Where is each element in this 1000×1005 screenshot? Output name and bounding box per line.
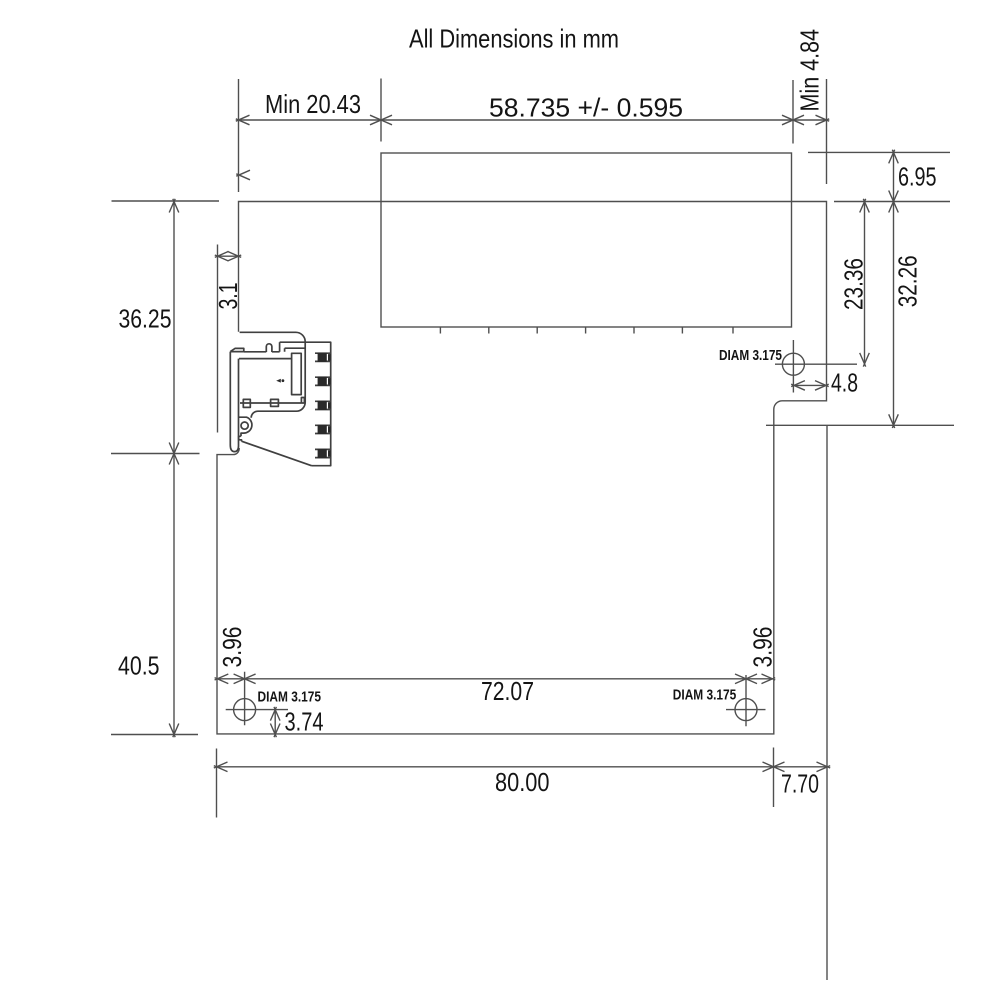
svg-text:3.74: 3.74 xyxy=(285,707,324,737)
connector cap bottom line xyxy=(239,358,292,360)
svg-text:32.26: 32.26 xyxy=(892,255,922,307)
svg-text:3.1: 3.1 xyxy=(213,283,243,310)
svg-text:Min 20.43: Min 20.43 xyxy=(265,89,361,119)
3.1 arrows xyxy=(215,251,241,261)
svg-text:36.25: 36.25 xyxy=(119,304,172,334)
arrow left at 238.5,120 xyxy=(236,115,250,125)
3.1 extension line x=217.5 xyxy=(217,245,219,433)
right reference line y=425.3 xyxy=(766,424,954,426)
title note xyxy=(409,24,619,54)
connector polarity mark xyxy=(276,379,284,383)
dim line x=864.5 (23.36) xyxy=(864,202,866,364)
arrow left at 217.3,678.8 xyxy=(215,674,229,684)
svg-text:DIAM 3.175: DIAM 3.175 xyxy=(673,688,737,704)
text 36.25 xyxy=(119,304,172,334)
dim line x=893.5 (6.95 / 32.26) xyxy=(893,152,895,425)
text DIAM 3.175 bottom-right xyxy=(673,688,737,704)
hole bottom-left circle xyxy=(234,699,256,721)
arrow X at 893.5,201.5 xyxy=(889,191,899,213)
svg-text:72.07: 72.07 xyxy=(481,676,534,706)
arrow X at 746,678.8 xyxy=(735,674,757,684)
connector hook step xyxy=(239,436,242,441)
connector wall outer xyxy=(230,352,238,452)
connector housing outline xyxy=(240,332,306,418)
connector latch finger xyxy=(266,344,272,352)
text 6.95 xyxy=(898,162,937,192)
horizontal dim line y=120 (Min 20.43 / 58.735 / Min 4.84) xyxy=(239,119,827,121)
connector strain curl outer xyxy=(239,417,252,436)
text 3.1 rotated xyxy=(213,283,243,310)
text Min 20.43 xyxy=(265,89,361,119)
4.8 dim line y=385.4 xyxy=(793,384,826,386)
extension line x=381 top xyxy=(380,79,382,142)
connector pin 2 xyxy=(315,377,331,386)
text 3.96 left rotated xyxy=(217,627,247,668)
connector assembly xyxy=(230,332,330,465)
extension line x=238.5 top xyxy=(238,79,240,192)
arrow X at 174,453.5 xyxy=(169,443,179,465)
svg-text:3.96: 3.96 xyxy=(217,627,247,668)
svg-text:80.00: 80.00 xyxy=(495,767,550,797)
connector pin 5 xyxy=(315,449,331,458)
arrow left at 216.5,766.8 xyxy=(214,762,228,772)
3.74 arrows xyxy=(270,707,280,737)
text 3.96 right rotated xyxy=(747,627,777,668)
connector slot foot xyxy=(301,398,304,404)
connector beak xyxy=(230,348,244,351)
connector card slot xyxy=(292,353,302,394)
left reference line y=453.5 xyxy=(111,453,200,455)
main body outline xyxy=(217,202,827,734)
left reference line y=734.5 xyxy=(111,734,198,736)
arrow X at 381,120 xyxy=(370,115,392,125)
arrow X at 244.6,678.8 xyxy=(234,674,256,684)
right reference line y=152.4 xyxy=(808,151,950,153)
arrow right at 772.5,678.8 xyxy=(762,674,776,684)
svg-text:23.36: 23.36 xyxy=(839,258,869,310)
arrow X at 773.5,766.8 xyxy=(763,762,785,772)
3.74 dim line x=275.2 xyxy=(274,710,276,735)
svg-text:DIAM 3.175: DIAM 3.175 xyxy=(719,348,782,364)
connector cap top edge xyxy=(244,351,280,353)
4.8 arrows xyxy=(791,381,829,391)
lower dim line y=678.8 (3.96 / 72.07 / 3.96) xyxy=(217,678,772,680)
connector pin 3 xyxy=(315,401,331,410)
text 4.8 xyxy=(831,368,858,398)
text 32.26 rotated xyxy=(892,255,922,307)
ticks under module rectangle xyxy=(440,327,733,334)
text 7.70 xyxy=(781,769,819,799)
arrow up at 893.5,152.4 xyxy=(889,150,899,164)
text 40.5 xyxy=(118,651,160,681)
bottom dim line y=766.8 (80.00 / 7.70) xyxy=(217,766,828,768)
extension x=773.5 bottom xyxy=(773,748,775,808)
svg-text:4.8: 4.8 xyxy=(831,368,858,398)
hole top-right circle xyxy=(782,353,804,375)
connector pin 4 xyxy=(315,425,331,434)
text DIAM 3.175 top-right xyxy=(719,348,782,364)
3.1 dim line y=256.2 xyxy=(218,255,239,257)
connector cap tab edge xyxy=(279,342,281,352)
connector boss tab A xyxy=(243,399,250,407)
connector pin block xyxy=(305,342,331,466)
connector strain curl inner xyxy=(241,422,248,429)
left reference line y=201 xyxy=(112,200,220,202)
text 72.07 xyxy=(481,676,534,706)
connector pin 1 xyxy=(315,353,331,362)
svg-text:DIAM 3.175: DIAM 3.175 xyxy=(258,690,322,706)
svg-text:All Dimensions in mm: All Dimensions in mm xyxy=(409,24,619,54)
arrow down at 893.5,425.3 xyxy=(889,414,899,428)
hole top-right centerlines xyxy=(775,340,857,393)
arrow X at 793,120 xyxy=(782,115,804,125)
connector housing floor line xyxy=(240,402,301,404)
text Min 4.84 rotated xyxy=(795,29,825,112)
arrow up at 174,201.5 xyxy=(169,199,179,213)
arrow right at 827.5,766.8 xyxy=(817,762,831,772)
arrow down at 864.5,363.9 xyxy=(860,353,870,367)
top module rectangle xyxy=(381,153,792,327)
left dim line x=174 (36.25 / 40.5) xyxy=(173,202,175,735)
svg-text:6.95: 6.95 xyxy=(898,162,937,192)
svg-text:40.5: 40.5 xyxy=(118,651,160,681)
hole bottom-right circle xyxy=(735,699,757,721)
svg-text:3.96: 3.96 xyxy=(747,627,777,668)
text DIAM 3.175 bottom-left xyxy=(258,690,322,706)
text 3.74 xyxy=(285,707,324,737)
hole bottom-left centerlines xyxy=(226,672,288,726)
arrow right at 826.5,120 xyxy=(816,115,830,125)
svg-text:Min 4.84: Min 4.84 xyxy=(795,29,825,112)
extension line x=826.5 top xyxy=(826,79,828,184)
connector gusset diagonal xyxy=(242,441,312,466)
connector cap inner line xyxy=(285,348,306,352)
arrow down at 174,734.5 xyxy=(169,724,179,738)
extension line x=793 top xyxy=(792,80,794,144)
svg-text:7.70: 7.70 xyxy=(781,769,819,799)
connector boss tab B xyxy=(271,399,279,406)
svg-text:58.735 +/- 0.595: 58.735 +/- 0.595 xyxy=(489,93,683,123)
arrow up at 864.5,201.5 xyxy=(860,199,870,213)
lone arrow on ext line at 239,175 xyxy=(236,170,250,180)
hole bottom-right centerlines xyxy=(726,675,766,726)
long extension line x=827 xyxy=(826,425,828,980)
right reference line y=201.5 xyxy=(834,201,950,203)
text 58.735 +/- 0.595 xyxy=(489,93,683,123)
text 80.00 xyxy=(495,767,550,797)
connector cap top line right xyxy=(280,341,306,343)
extension x=216.5 bottom xyxy=(216,749,218,818)
text 23.36 rotated xyxy=(839,258,869,310)
